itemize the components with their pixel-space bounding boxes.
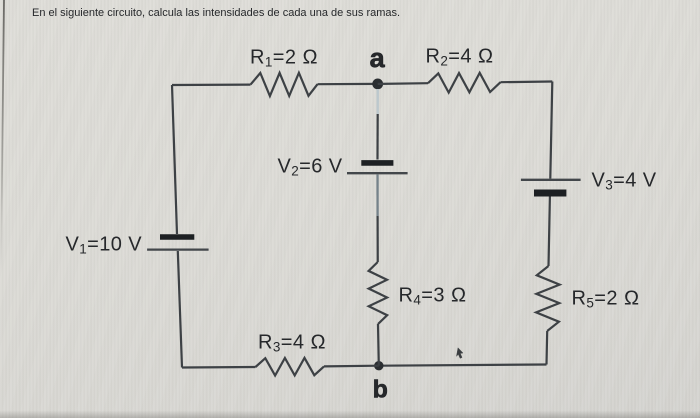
battery V2 (thick plate top) [361,160,393,166]
resistor R4 [369,262,388,324]
photo left edge line [1,0,4,270]
battery V1 (thin plate bottom) [147,248,209,250]
resistor R1 [251,73,318,96]
svg-text:R3=4 Ω: R3=4 Ω [258,332,326,355]
resistor R3 [256,358,325,376]
node b [374,361,383,370]
node a [372,79,383,90]
wire: node b to R3 [324,365,379,368]
battery V2 (thin plate bottom) [347,172,408,174]
wire: bottom run from right corner to node b [379,365,547,366]
svg-text:R2=4 Ω: R2=4 Ω [426,46,494,69]
mouse cursor [456,348,463,359]
wire: V2 to R4 dark segment [377,216,379,262]
battery V1 (thick plate top) [160,234,194,240]
svg-text:b: b [373,376,389,404]
wire: node a to R2 [378,82,428,85]
wire: V3 to R5 [549,197,550,267]
battery V3 (thin plate top) [521,179,581,181]
resistor R2 [428,73,501,93]
resistor R5 [536,266,560,331]
svg-text:R1=2 Ω: R1=2 Ω [250,47,318,70]
wire: R3 to bottom-left corner [182,366,256,369]
svg-text:V3=4 V: V3=4 V [592,170,657,193]
svg-text:En el siguiente circuito, calc: En el siguiente circuito, calcula las in… [32,7,400,19]
wire: V2 to R4 (glare segment) [376,174,378,216]
wire: left branch above V1 (battery up to top-left corner) [172,85,177,234]
svg-text:R5=2 Ω: R5=2 Ω [572,288,640,311]
svg-text:V2=6 V: V2=6 V [278,156,343,179]
svg-text:R4=3 Ω: R4=3 Ω [399,285,467,308]
wire: left branch below V1 (bottom-left corner up to battery) [178,251,182,368]
wire: R2 to top-right corner [501,80,553,83]
wire: R5 to bottom-right corner [545,331,548,365]
battery V3 (thick plate bottom) [534,190,566,197]
svg-text:V1=10 V: V1=10 V [66,234,143,257]
svg-text:a: a [370,43,386,73]
wire: right branch down to V3 [550,82,552,179]
wire: top-left horizontal run to R1 [172,83,251,86]
wire: R4 to node b [377,324,380,366]
wire: node a down to V2 (light glare segment) [377,89,379,114]
wire: node a branch to V2 dark segment [376,114,378,160]
wire: R1 to node a [318,83,378,85]
